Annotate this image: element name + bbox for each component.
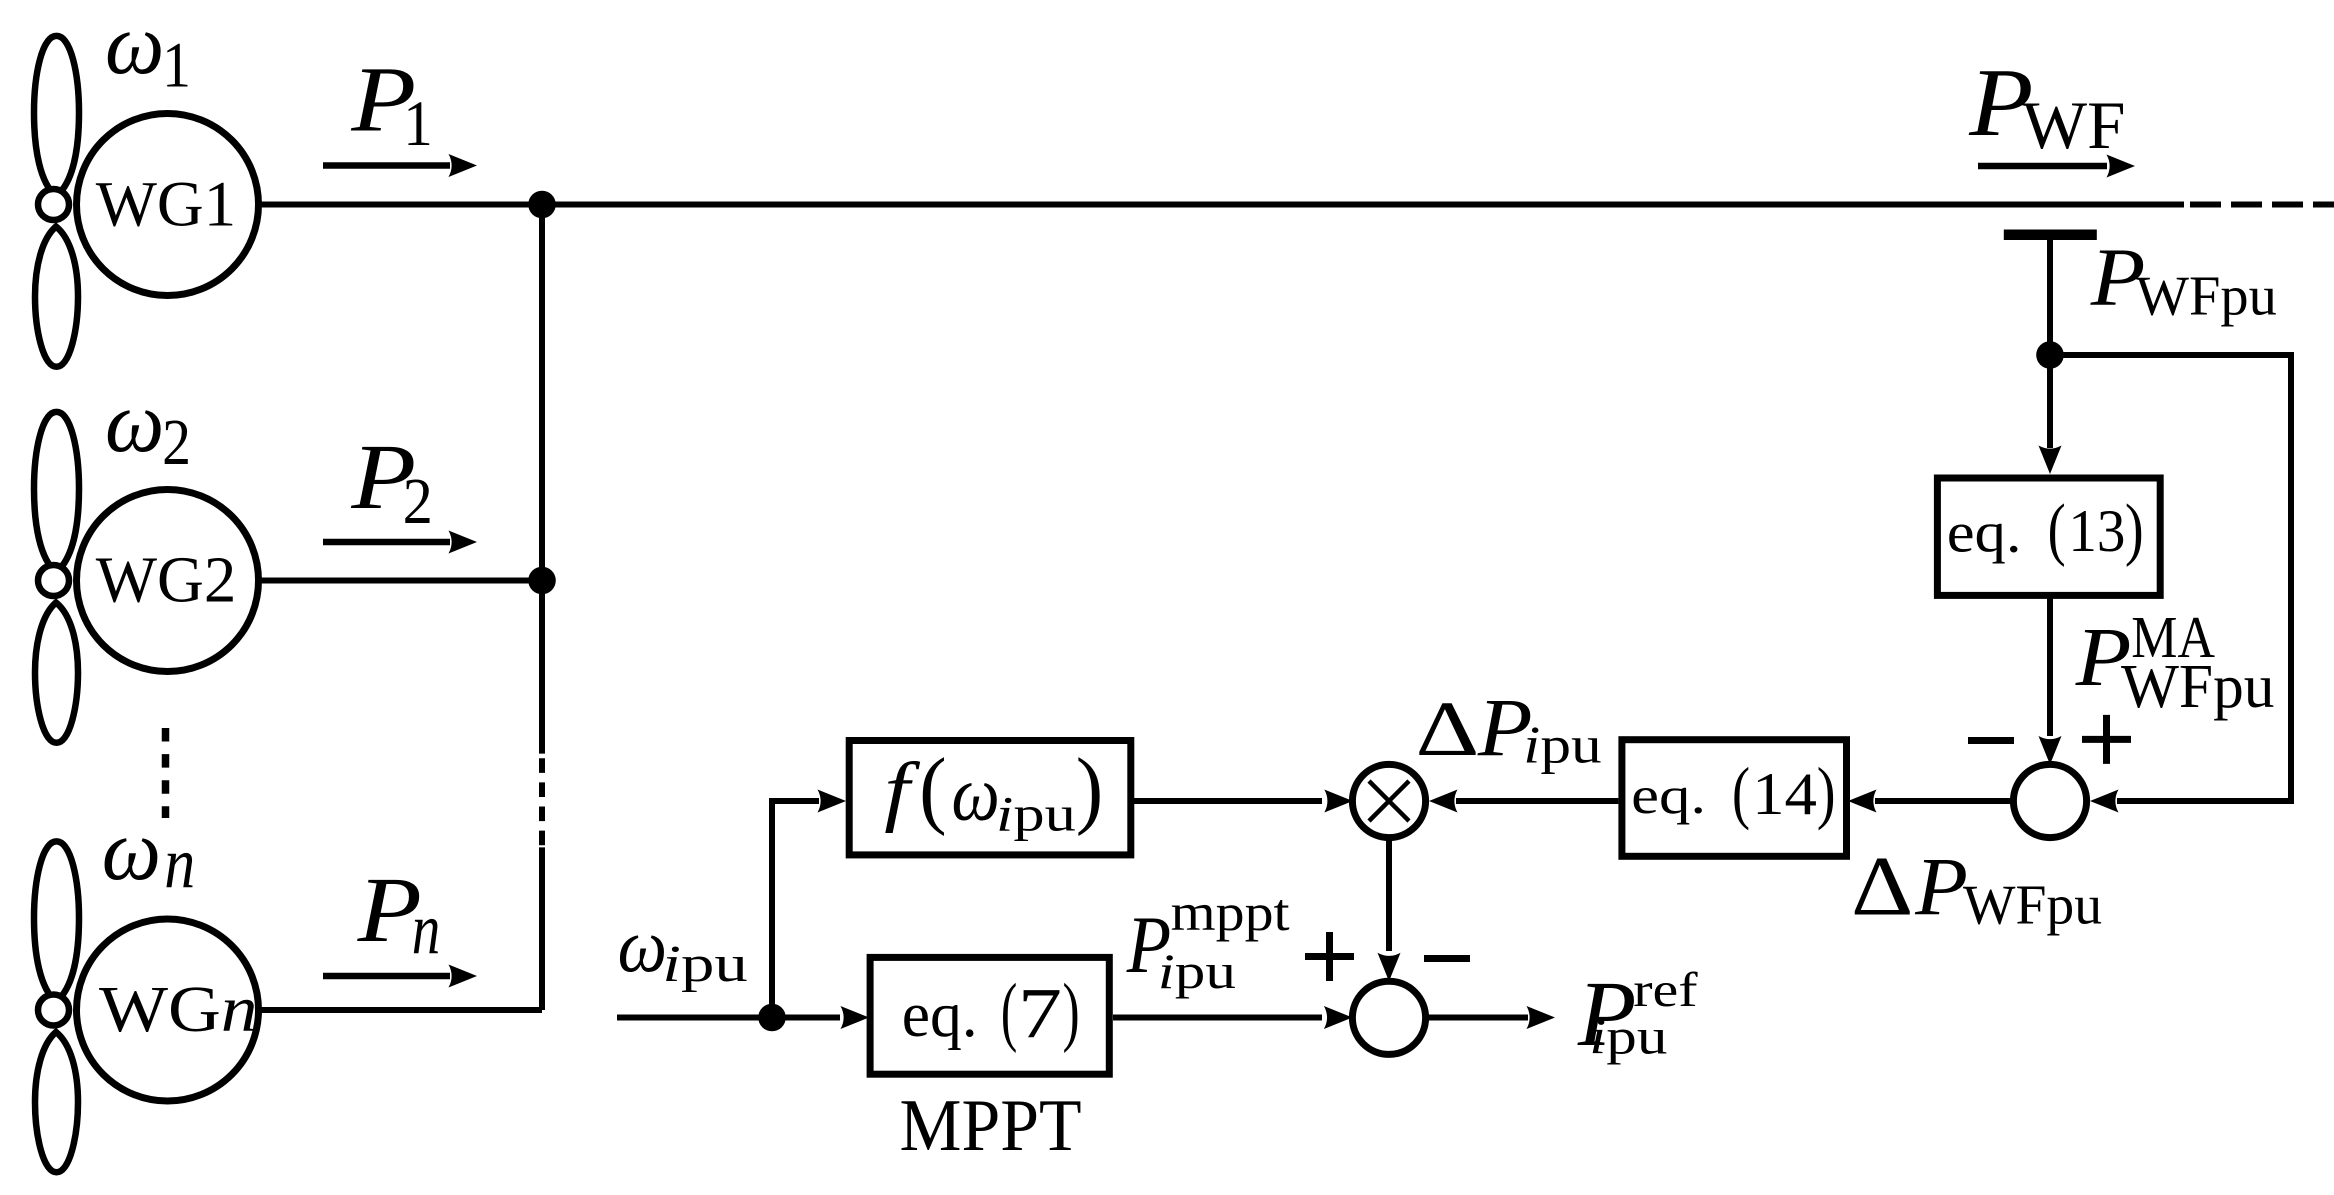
svg-text:ω: ω [618,904,667,988]
svg-text:ω: ω [952,749,1000,837]
svg-text:): ) [1076,741,1104,838]
svg-text:(: ( [919,741,947,838]
svg-text:ω: ω [105,0,164,92]
svg-text:MPPT: MPPT [900,1084,1082,1167]
svg-text:eq.: eq. [902,978,978,1050]
svg-text:WGn: WGn [99,974,257,1047]
svg-text:ipu: ipu [1589,1009,1667,1065]
svg-text:Δ: Δ [1416,686,1480,773]
svg-text:WFpu: WFpu [2136,266,2277,328]
svg-text:2: 2 [162,407,191,479]
svg-text:ω: ω [102,803,161,898]
svg-text:WG1: WG1 [96,169,236,241]
svg-text:): ) [1817,753,1836,831]
svg-text:WFpu: WFpu [2121,653,2274,721]
svg-text:2: 2 [403,465,433,538]
svg-text:(: ( [1001,969,1017,1055]
svg-text:P: P [1914,842,1968,933]
svg-text:1: 1 [162,31,191,101]
svg-text:(: ( [1732,753,1750,831]
svg-text:14: 14 [1752,760,1817,828]
svg-text:): ) [1063,968,1080,1054]
svg-text:(: ( [2048,490,2066,568]
svg-text:Δ: Δ [1851,839,1913,933]
svg-text:ω: ω [105,375,164,470]
svg-text:WFpu: WFpu [1963,874,2102,936]
svg-text:7: 7 [1018,974,1062,1053]
svg-text:eq.: eq. [1947,501,2022,565]
svg-text:ipu: ipu [1158,946,1236,1000]
svg-text:eq.: eq. [1631,766,1706,825]
svg-text:13: 13 [2068,497,2125,564]
svg-text:WF: WF [2022,87,2125,163]
svg-text:n: n [412,889,441,971]
svg-text:ipu: ipu [996,787,1076,842]
svg-text:): ) [2125,489,2144,567]
svg-text:ipu: ipu [662,935,747,992]
svg-text:ipu: ipu [1523,716,1601,774]
svg-text:WG2: WG2 [96,544,237,616]
svg-text:n: n [164,822,195,904]
svg-text:mppt: mppt [1171,884,1291,942]
svg-text:1: 1 [403,89,433,160]
